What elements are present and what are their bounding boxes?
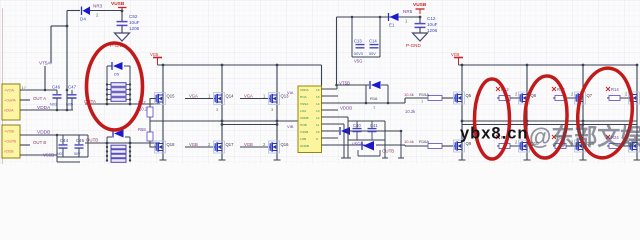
- node: [106, 142, 109, 145]
- gate wire Q16: [240, 146, 268, 148]
- gate wire Q17: [185, 146, 213, 148]
- bottom stubs: [459, 159, 640, 161]
- annotation red ellipse C: [573, 65, 636, 160]
- node: [526, 64, 529, 67]
- bottom stubs: [160, 159, 281, 161]
- wire: [442, 97, 454, 99]
- wire: [350, 130, 401, 132]
- svg-text:50V3: 50V3: [354, 52, 363, 56]
- svg-text:LOA: LOA: [300, 109, 307, 113]
- node: [335, 84, 338, 87]
- capacitor C12: [415, 16, 438, 33]
- gate wire Q14: [185, 98, 213, 100]
- wire bottom: [57, 157, 80, 162]
- node: [66, 109, 69, 112]
- cap box frame: [348, 121, 385, 140]
- gate resistor R13 top: [552, 87, 575, 101]
- svg-text:C47: C47: [68, 85, 77, 90]
- svg-text:ybx8.cn: ybx8.cn: [460, 125, 528, 143]
- pin wire diode row: [322, 130, 340, 132]
- node: [221, 64, 224, 67]
- svg-text:D5: D5: [114, 72, 120, 77]
- diode D6: [113, 130, 124, 138]
- power port VGB: [451, 52, 463, 65]
- node: [582, 64, 585, 67]
- capacitor C40: [353, 121, 362, 140]
- svg-text:10.2k: 10.2k: [405, 109, 416, 114]
- connector J1B: [2, 125, 20, 158]
- phase wire OUTA mid: [150, 120, 298, 122]
- svg-text:C44: C44: [60, 138, 69, 143]
- connector J1A: [2, 84, 20, 120]
- svg-text:12: 12: [316, 116, 320, 120]
- svg-text:Q6: Q6: [531, 93, 537, 98]
- wire column x583: [582, 65, 584, 160]
- svg-text:VGB: VGB: [244, 142, 253, 147]
- node: [387, 102, 390, 105]
- svg-text:VIA: VIA: [287, 90, 294, 95]
- wire down x401: [398, 131, 404, 158]
- svg-text:+OuPA: +OuPA: [4, 99, 16, 103]
- svg-text:C41: C41: [370, 123, 378, 128]
- svg-text:11: 11: [316, 123, 319, 127]
- svg-text:C46: C46: [52, 85, 61, 90]
- svg-text:NR5: NR5: [403, 9, 413, 14]
- svg-text:VGA: VGA: [244, 94, 253, 99]
- node: [221, 123, 224, 126]
- svg-text:VGA: VGA: [189, 94, 198, 99]
- svg-text:N03: N03: [57, 152, 64, 156]
- svg-text:VT5A: VT5A: [39, 61, 51, 66]
- diode E1: [389, 13, 399, 28]
- gate resistor R23 bottom: [552, 135, 575, 149]
- wire: [121, 11, 123, 21]
- phase wire mid: [462, 120, 637, 122]
- svg-text:VDDB: VDDB: [37, 130, 50, 136]
- node: [276, 120, 279, 123]
- capacitor C47: [66, 85, 77, 111]
- svg-text:D4: D4: [80, 17, 86, 22]
- svg-text:R58: R58: [138, 127, 146, 132]
- diode box frame: [107, 137, 130, 143]
- node: [461, 64, 464, 67]
- svg-text:15: 15: [316, 95, 320, 99]
- capacitor C44: [57, 135, 68, 157]
- wire jog up: [405, 98, 428, 103]
- svg-text:VUSB: VUSB: [111, 1, 125, 7]
- wire down x348: [345, 140, 351, 158]
- transistor Q6: [519, 92, 530, 104]
- svg-text:Q7: Q7: [587, 93, 593, 98]
- transistor Q9: [454, 140, 465, 152]
- resistor R16A: [404, 139, 442, 149]
- node: [44, 89, 47, 92]
- gate resistor R22 bottom: [496, 135, 519, 149]
- wire vertical x45: [44, 66, 46, 90]
- wire down x385: [382, 140, 388, 158]
- svg-text:R16: R16: [370, 96, 378, 101]
- transistor Q16: [269, 141, 280, 153]
- transistor Q12: [629, 140, 640, 152]
- diode box lower frame: [358, 150, 380, 156]
- svg-text:Q14: Q14: [226, 94, 235, 99]
- svg-text:VDDB: VDDB: [300, 116, 309, 120]
- power port VUSB: [111, 1, 127, 11]
- svg-text:V5G: V5G: [354, 59, 362, 64]
- node: [129, 103, 132, 106]
- gate resistor R12 top: [496, 87, 519, 101]
- svg-text:N05: N05: [66, 103, 73, 107]
- svg-text:Q15: Q15: [167, 94, 176, 99]
- svg-text:+VOA: +VOA: [4, 89, 14, 93]
- svg-text:C12: C12: [427, 16, 436, 21]
- gate resistor R14 top: [606, 87, 629, 101]
- phase wire lower: [222, 124, 277, 126]
- svg-text:10.4k: 10.4k: [404, 139, 414, 144]
- svg-text:NR3: NR3: [93, 4, 103, 9]
- svg-text:OUTB: OUTB: [86, 138, 98, 143]
- transistor Q14: [214, 93, 225, 105]
- resistor network rows B: [107, 143, 130, 161]
- svg-text:C45: C45: [76, 138, 85, 143]
- svg-text:Q16: Q16: [281, 142, 290, 147]
- wire: [376, 145, 428, 146]
- node: [221, 120, 224, 123]
- resistor R15A: [404, 92, 442, 104]
- node: [636, 64, 639, 67]
- pin wire box C40: [322, 117, 349, 121]
- wire vertical x336: [336, 17, 338, 85]
- svg-text:1?: 1?: [22, 86, 26, 90]
- cap box C44/C45: [56, 134, 88, 157]
- transistor Q17: [214, 141, 225, 153]
- node junction: [121, 10, 124, 13]
- wire branch: [51, 25, 67, 27]
- resistor R58 gate Q18: [138, 121, 156, 147]
- pin 3 wire VDDA: [20, 109, 73, 111]
- wire OUTB: [85, 142, 160, 144]
- sheet border left: [2, 8, 4, 164]
- gate resistor R24 bottom: [606, 135, 629, 149]
- svg-text:1206: 1206: [129, 26, 140, 31]
- svg-text:@东部文娱: @东部文娱: [529, 124, 640, 150]
- diode D4: [80, 7, 90, 22]
- op-amp U2 block: [287, 86, 322, 153]
- svg-text:Q5: Q5: [466, 93, 472, 98]
- svg-text:OUTB: OUTB: [382, 149, 394, 154]
- node: [379, 16, 382, 19]
- svg-text:OUT B: OUT B: [33, 140, 46, 145]
- pin wire: [20, 154, 57, 156]
- top wire: [337, 16, 421, 18]
- wire column x222: [221, 65, 223, 160]
- svg-text:C52: C52: [129, 14, 138, 19]
- svg-text:50V: 50V: [74, 152, 81, 156]
- annotation big red ellipse: [87, 43, 143, 130]
- node: [419, 16, 422, 19]
- svg-text:LOB: LOB: [300, 137, 306, 141]
- svg-text:R15A: R15A: [419, 92, 429, 97]
- node: [365, 102, 368, 105]
- svg-text:VGB: VGB: [189, 142, 198, 147]
- wire column x462: [461, 65, 463, 160]
- svg-text:VDDA: VDDA: [300, 88, 310, 92]
- resistor network rows: [111, 83, 126, 102]
- transistor Q7: [575, 92, 586, 104]
- transistor Q18: [155, 141, 166, 153]
- diode D7: [340, 127, 350, 135]
- pin wire to gate row: [322, 102, 406, 104]
- cap box frame: [352, 17, 380, 57]
- node: [461, 120, 464, 123]
- svg-text:+VOB: +VOB: [4, 130, 14, 134]
- gate wire Q13: [240, 98, 268, 100]
- capacitor C13: [354, 39, 365, 57]
- svg-text:P-GND: P-GND: [406, 43, 421, 48]
- node: [129, 142, 132, 145]
- node: [56, 109, 59, 112]
- node: [106, 103, 109, 106]
- svg-text:Q17: Q17: [226, 142, 235, 147]
- node: [526, 123, 529, 126]
- svg-text:13: 13: [316, 109, 320, 113]
- wire down x344: [341, 124, 347, 158]
- wire OUTA: [85, 103, 160, 105]
- capacitor C14: [369, 39, 379, 57]
- transistor Q15: [155, 93, 166, 105]
- svg-text:10uF: 10uF: [427, 22, 438, 27]
- top rail: [158, 64, 322, 66]
- transistor Q10: [519, 140, 530, 152]
- node: [400, 130, 403, 133]
- svg-text:E1: E1: [389, 23, 395, 28]
- node: [162, 64, 165, 67]
- pin wire bottom gate: [322, 144, 366, 146]
- pin 2 stub: [20, 99, 30, 101]
- node: [276, 64, 279, 67]
- svg-text:VUSB: VUSB: [413, 2, 427, 8]
- svg-text:16: 16: [316, 88, 320, 92]
- wire: [67, 10, 80, 12]
- svg-text:VSSB: VSSB: [300, 130, 308, 134]
- power port VUSB: [413, 2, 427, 14]
- pin wire VDDB: [20, 134, 57, 136]
- svg-text:OUT A: OUT A: [33, 96, 46, 101]
- transistor Q11: [575, 140, 586, 152]
- svg-text:+OuPB: +OuPB: [4, 140, 17, 144]
- wire column x163: [162, 65, 164, 160]
- svg-text:C14: C14: [369, 39, 377, 44]
- capacitor C45: [74, 135, 84, 157]
- capacitor C41: [368, 121, 377, 140]
- diode D9: [362, 141, 374, 151]
- pin 1 wire: [20, 89, 57, 91]
- capacitor C46: [50, 85, 62, 111]
- wire column x277: [276, 65, 278, 160]
- svg-text:GNDB: GNDB: [300, 144, 309, 148]
- svg-text:50V: 50V: [369, 52, 376, 56]
- node: [351, 16, 354, 19]
- node: [526, 120, 529, 123]
- svg-text:10uF: 10uF: [129, 20, 140, 25]
- ground P-GND: [406, 33, 428, 48]
- svg-text:HOA: HOA: [300, 95, 308, 99]
- svg-text:VSSA: VSSA: [300, 102, 309, 106]
- diode box frame: [366, 85, 388, 103]
- pin stubs right side: [322, 96, 345, 138]
- svg-text:VDDA: VDDA: [37, 105, 51, 111]
- node: [66, 25, 69, 28]
- svg-text:10.4k: 10.4k: [404, 92, 414, 97]
- node: [276, 123, 279, 126]
- diode D8: [370, 81, 381, 89]
- svg-text:VG5: VG5: [150, 52, 159, 57]
- transistor Q8: [629, 92, 640, 104]
- node: [582, 120, 585, 123]
- svg-text:VG6: VG6: [451, 52, 460, 57]
- node: [66, 89, 69, 92]
- svg-text:VDDB: VDDB: [340, 106, 352, 111]
- wire: [90, 10, 122, 12]
- svg-text:C13: C13: [354, 39, 362, 44]
- annotation red ellipse B: [524, 75, 569, 158]
- ground P-GND: [110, 33, 130, 48]
- annotation red ellipse A: [475, 79, 510, 159]
- svg-text:vDDB: vDDB: [4, 150, 14, 154]
- node: [582, 123, 585, 126]
- resistor R57 gate Q15: [138, 99, 156, 122]
- svg-text:R16A: R16A: [419, 139, 429, 144]
- transistor Q13: [269, 93, 280, 105]
- wire to block: [321, 65, 323, 86]
- svg-text:Q18: Q18: [167, 142, 176, 147]
- top rail: [459, 64, 638, 66]
- diode D5: [112, 62, 123, 77]
- svg-text:V5GB: V5GB: [352, 142, 363, 147]
- pin wire VT5B: [322, 85, 367, 89]
- svg-text:1206: 1206: [427, 28, 438, 33]
- wire: [419, 17, 421, 23]
- svg-text:V55B: V55B: [43, 153, 54, 158]
- wire: [442, 145, 454, 147]
- pin stub: [20, 144, 30, 146]
- svg-text:R14: R14: [611, 87, 619, 92]
- wire column x527: [526, 65, 528, 160]
- svg-text:14: 14: [316, 102, 320, 106]
- power port VGA: [150, 52, 162, 65]
- wire column x637: [636, 65, 638, 160]
- transistor Q5: [454, 92, 465, 104]
- wire vertical x67: [66, 11, 68, 111]
- svg-text:VIB: VIB: [287, 124, 294, 129]
- phase wire lower: [462, 124, 637, 126]
- svg-text:HOB: HOB: [300, 123, 307, 127]
- diode box frame: [107, 66, 130, 104]
- svg-text:10: 10: [316, 130, 320, 134]
- svg-text:N03: N03: [50, 103, 57, 107]
- capacitor C52: [117, 14, 140, 33]
- svg-text:vDDA: vDDA: [4, 109, 14, 113]
- svg-text:VT5B: VT5B: [339, 81, 350, 86]
- wire vertical x51: [50, 26, 52, 64]
- sheet background: [0, 0, 640, 164]
- svg-text:9: 9: [316, 137, 318, 141]
